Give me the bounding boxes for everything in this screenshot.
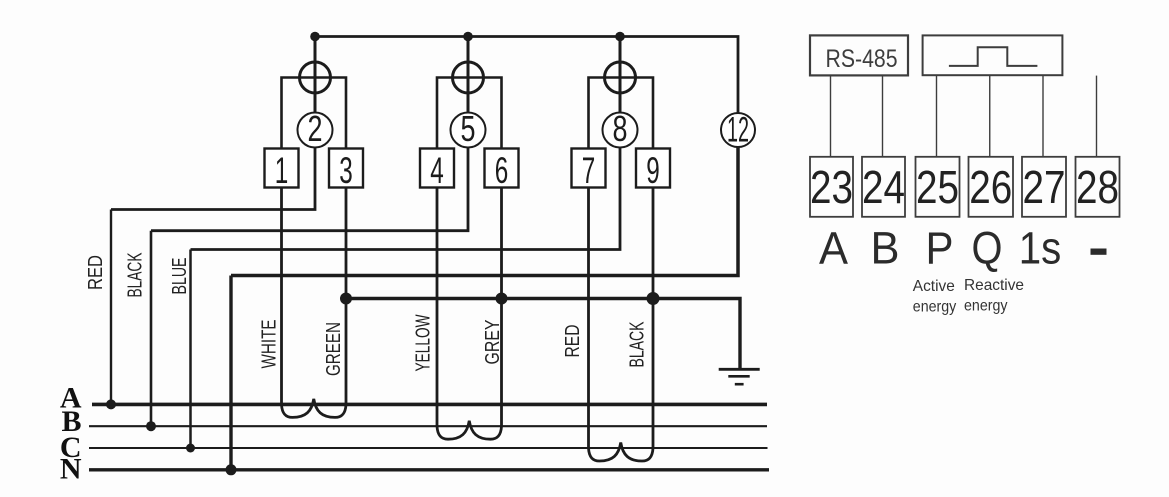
svg-text:Active: Active [913,278,955,295]
svg-text:RED: RED [85,255,107,290]
svg-text:28: 28 [1076,161,1119,213]
svg-text:25: 25 [916,161,959,213]
svg-text:Q: Q [972,223,1003,274]
svg-text:YELLOW: YELLOW [413,314,435,371]
svg-text:7: 7 [582,150,596,191]
svg-text:9: 9 [646,150,660,191]
svg-text:4: 4 [430,150,444,191]
svg-text:1s: 1s [1019,223,1062,274]
svg-text:GREEN: GREEN [323,322,345,376]
svg-text:B: B [871,223,900,274]
svg-text:3: 3 [339,150,353,191]
svg-text:1: 1 [275,150,289,191]
svg-text:5: 5 [461,108,476,149]
svg-text:energy: energy [964,298,1008,315]
svg-text:BLACK: BLACK [627,321,649,367]
svg-text:N: N [60,453,82,486]
svg-text:GREY: GREY [482,320,504,365]
svg-text:energy: energy [913,298,957,315]
svg-text:RS-485: RS-485 [826,45,898,73]
svg-text:Reactive: Reactive [964,277,1024,294]
svg-text:12: 12 [727,111,749,150]
svg-text:26: 26 [969,161,1012,213]
svg-text:2: 2 [308,108,323,149]
svg-text:27: 27 [1023,161,1066,213]
svg-text:RED: RED [562,325,584,358]
svg-text:6: 6 [495,150,509,191]
svg-text:24: 24 [862,161,905,213]
svg-text:A: A [819,223,848,274]
svg-text:WHITE: WHITE [259,320,281,369]
svg-text:23: 23 [810,161,853,213]
svg-text:P: P [926,223,954,274]
svg-text:BLACK: BLACK [125,252,147,297]
svg-text:8: 8 [613,108,628,149]
svg-text:BLUE: BLUE [169,258,191,295]
